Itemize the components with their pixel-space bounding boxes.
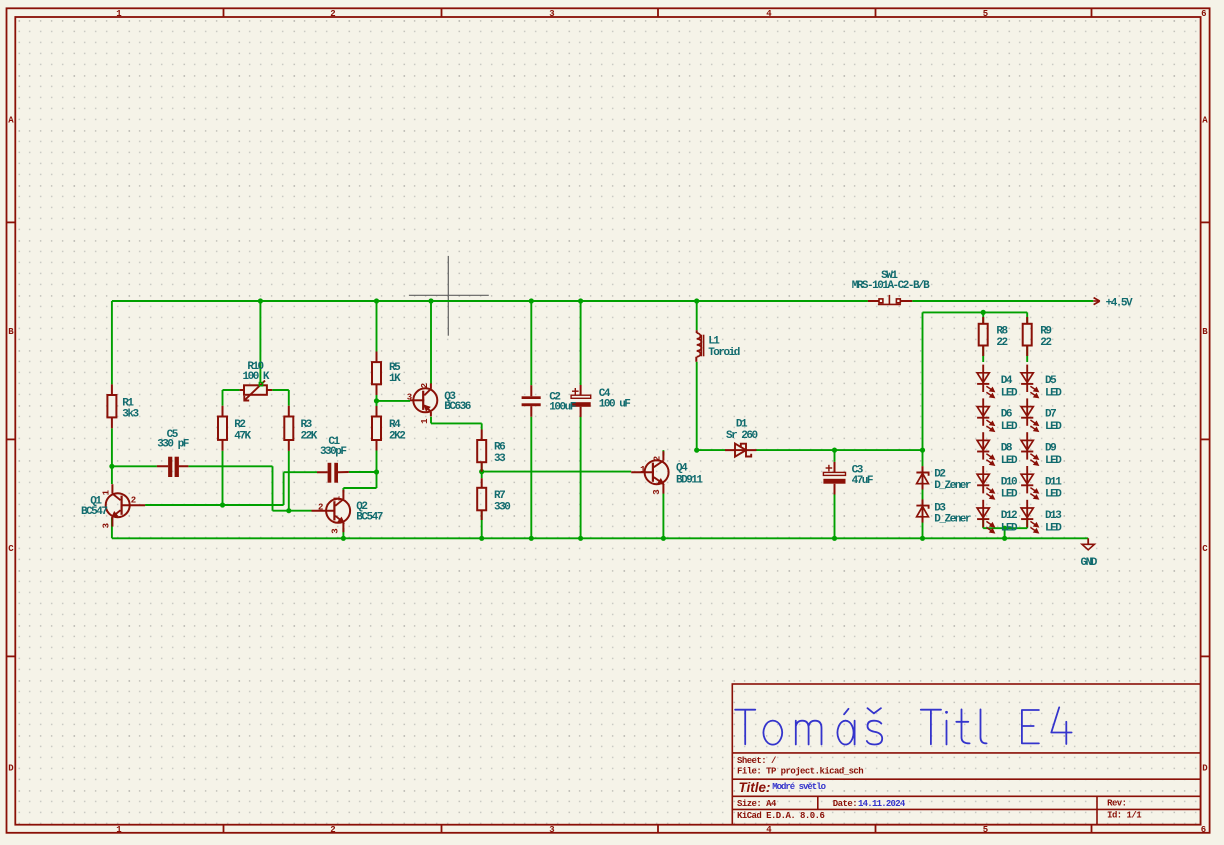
- svg-text:BC547: BC547: [81, 506, 107, 518]
- svg-text:D6: D6: [1001, 409, 1012, 421]
- svg-text:1: 1: [640, 465, 646, 475]
- svg-text:6: 6: [1201, 9, 1206, 19]
- svg-text:3: 3: [407, 393, 412, 403]
- svg-text:3: 3: [102, 523, 112, 528]
- svg-text:5: 5: [983, 9, 988, 19]
- svg-text:2: 2: [330, 9, 335, 19]
- svg-text:100 K: 100 K: [243, 371, 270, 383]
- svg-text:14.11.2024: 14.11.2024: [858, 799, 906, 809]
- svg-text:D9: D9: [1045, 443, 1056, 455]
- svg-text:LED: LED: [1001, 523, 1018, 535]
- svg-text:Sr 260: Sr 260: [726, 430, 758, 442]
- svg-text:R2: R2: [234, 419, 245, 431]
- svg-text:3: 3: [331, 528, 341, 533]
- svg-text:5: 5: [983, 825, 988, 835]
- svg-text:BC636: BC636: [444, 401, 470, 413]
- svg-text:2: 2: [330, 825, 335, 835]
- svg-text:LED: LED: [1001, 455, 1018, 467]
- svg-text:B: B: [8, 327, 14, 337]
- svg-text:D: D: [8, 764, 14, 774]
- svg-text:LED: LED: [1001, 421, 1018, 433]
- svg-text:R6: R6: [494, 442, 505, 454]
- svg-text:2: 2: [652, 456, 662, 461]
- svg-text:MRS-101A-C2-B/B: MRS-101A-C2-B/B: [852, 280, 930, 292]
- svg-text:2K2: 2K2: [389, 431, 405, 443]
- svg-text:3k3: 3k3: [122, 409, 139, 421]
- svg-text:1: 1: [333, 495, 343, 501]
- svg-text:LED: LED: [1045, 455, 1062, 467]
- svg-text:1: 1: [116, 825, 122, 835]
- svg-text:1: 1: [102, 489, 112, 495]
- svg-text:LED: LED: [1045, 489, 1062, 501]
- svg-text:C: C: [1202, 544, 1208, 554]
- svg-text:4: 4: [766, 825, 772, 835]
- svg-text:Rev:: Rev:: [1107, 799, 1126, 809]
- svg-text:B: B: [1202, 327, 1208, 337]
- svg-text:D13: D13: [1045, 510, 1062, 522]
- svg-text:GND: GND: [1081, 557, 1098, 569]
- svg-text:LED: LED: [1045, 523, 1062, 535]
- svg-text:LED: LED: [1001, 387, 1018, 399]
- svg-text:Toroid: Toroid: [708, 347, 740, 359]
- svg-text:47K: 47K: [234, 431, 251, 443]
- svg-text:LED: LED: [1045, 387, 1062, 399]
- svg-text:File: TP project.kicad_sch: File: TP project.kicad_sch: [737, 767, 863, 777]
- svg-text:D_Zener: D_Zener: [934, 480, 971, 492]
- svg-text:D: D: [1202, 764, 1208, 774]
- svg-text:BD911: BD911: [676, 474, 703, 486]
- svg-text:2: 2: [131, 496, 136, 506]
- svg-text:2: 2: [318, 503, 323, 513]
- svg-text:330 pF: 330 pF: [157, 438, 189, 450]
- svg-text:LED: LED: [1001, 489, 1018, 501]
- svg-text:4: 4: [766, 9, 772, 19]
- svg-text:Title:: Title:: [739, 780, 771, 795]
- svg-text:LED: LED: [1045, 421, 1062, 433]
- svg-text:R7: R7: [494, 490, 505, 502]
- svg-text:47uF: 47uF: [852, 475, 873, 487]
- svg-text:22: 22: [1040, 337, 1051, 349]
- svg-text:6: 6: [1201, 825, 1206, 835]
- svg-text:3: 3: [652, 489, 662, 494]
- svg-text:100uF: 100uF: [549, 402, 575, 414]
- svg-text:3: 3: [549, 9, 554, 19]
- svg-text:C: C: [8, 544, 14, 554]
- svg-text:22: 22: [996, 337, 1007, 349]
- svg-text:D10: D10: [1001, 476, 1017, 488]
- svg-text:D_Zener: D_Zener: [934, 514, 971, 526]
- svg-text:R9: R9: [1040, 326, 1051, 338]
- svg-text:1: 1: [420, 418, 430, 424]
- svg-text:330pF: 330pF: [320, 446, 346, 458]
- svg-text:Id: 1/1: Id: 1/1: [1107, 811, 1142, 821]
- svg-text:D12: D12: [1001, 510, 1017, 522]
- svg-text:330: 330: [494, 501, 510, 513]
- svg-text:+4.5V: +4.5V: [1106, 298, 1133, 310]
- svg-text:BC547: BC547: [356, 511, 382, 523]
- svg-text:D11: D11: [1045, 476, 1062, 488]
- svg-text:Date:: Date:: [833, 799, 857, 809]
- svg-text:Sheet: /: Sheet: /: [737, 756, 776, 766]
- svg-text:Modré světlo: Modré světlo: [772, 782, 825, 792]
- svg-text:KiCad E.D.A. 8.0.6: KiCad E.D.A. 8.0.6: [737, 811, 824, 821]
- svg-text:D7: D7: [1045, 409, 1056, 421]
- svg-text:3: 3: [549, 825, 554, 835]
- svg-text:2: 2: [420, 383, 430, 388]
- svg-text:A: A: [8, 116, 14, 126]
- svg-text:22K: 22K: [301, 431, 318, 443]
- svg-text:100 uF: 100 uF: [599, 399, 631, 411]
- svg-text:A: A: [1202, 116, 1208, 126]
- svg-text:Size: A4: Size: A4: [737, 799, 777, 809]
- svg-text:1: 1: [116, 9, 122, 19]
- svg-text:D2: D2: [934, 468, 945, 480]
